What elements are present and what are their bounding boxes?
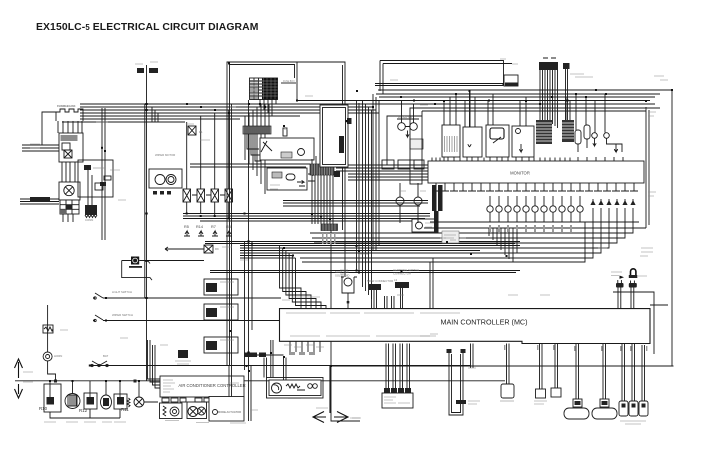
svg-text:FUSE BOX: FUSE BOX <box>283 81 295 83</box>
svg-text:SPAR CONNECTOR: SPAR CONNECTOR <box>367 279 393 283</box>
svg-text:R8: R8 <box>226 225 231 229</box>
svg-text:R11: R11 <box>121 407 129 412</box>
svg-text:C4: C4 <box>284 127 288 131</box>
svg-text:LIGHT SWITCH: LIGHT SWITCH <box>112 290 132 294</box>
svg-text:R9: R9 <box>215 247 219 251</box>
svg-text:BAT: BAT <box>103 354 109 358</box>
svg-text:CONN: CONN <box>85 218 93 222</box>
svg-text:MAIN CONTROLLER (MC): MAIN CONTROLLER (MC) <box>440 318 527 327</box>
svg-text:R7: R7 <box>211 225 216 229</box>
svg-text:R14: R14 <box>196 225 203 229</box>
svg-text:WIPER SWITCH: WIPER SWITCH <box>112 313 133 317</box>
svg-text:AIR CONDITIONER CONTROLLER: AIR CONDITIONER CONTROLLER <box>178 383 245 388</box>
svg-text:L3: L3 <box>394 278 398 282</box>
svg-text:R1: R1 <box>199 130 203 134</box>
svg-text:R12: R12 <box>79 408 88 413</box>
svg-text:MODE ACTUATOR: MODE ACTUATOR <box>218 410 241 414</box>
svg-text:CONNECTOR: CONNECTOR <box>393 272 411 276</box>
svg-text:WIPER MOTOR: WIPER MOTOR <box>155 153 175 157</box>
svg-text:R5: R5 <box>184 225 189 229</box>
svg-text:MONITOR: MONITOR <box>510 171 530 176</box>
svg-text:EX150LC-5 ELECTRICAL CIRCUIT D: EX150LC-5 ELECTRICAL CIRCUIT DIAGRAM <box>36 22 259 33</box>
svg-text:R10: R10 <box>39 406 48 411</box>
svg-text:HORN: HORN <box>54 354 62 358</box>
svg-text:WIPER SW: WIPER SW <box>398 115 413 119</box>
